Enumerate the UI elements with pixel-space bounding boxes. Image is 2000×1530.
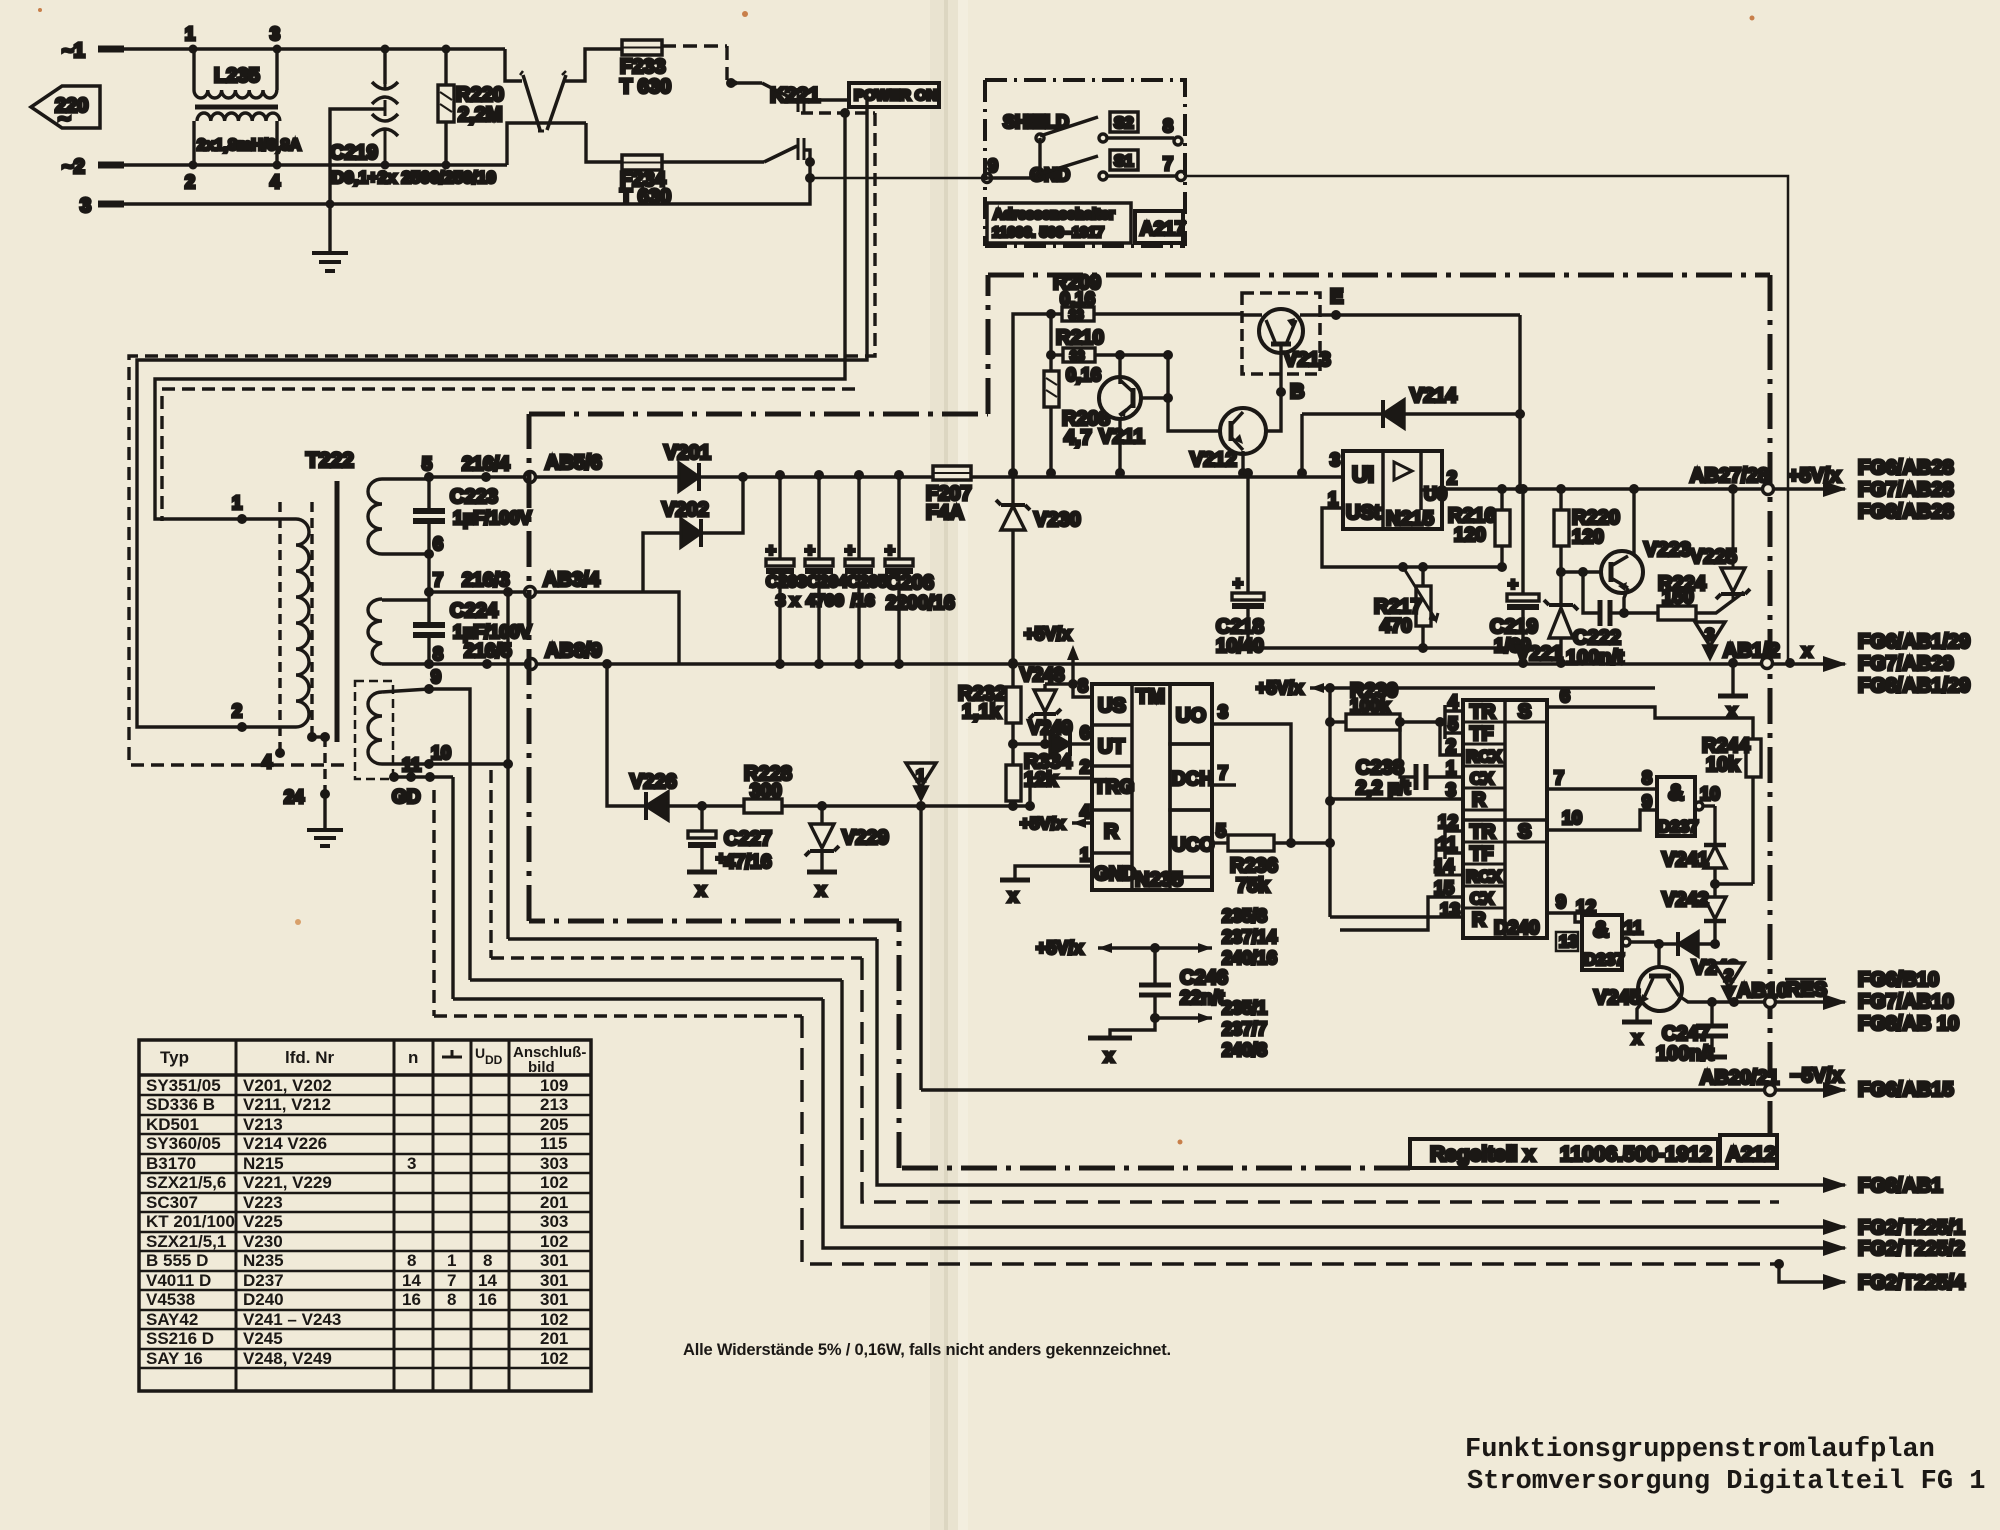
svg-text:4700: 4700 <box>806 591 844 610</box>
svg-text:V245: V245 <box>1594 987 1641 1009</box>
US pin 8 wire <box>1073 684 1092 697</box>
svg-text:3: 3 <box>270 24 280 44</box>
svg-text:9: 9 <box>1642 792 1652 812</box>
zener V221 <box>1516 567 1578 668</box>
svg-text:102: 102 <box>540 1349 568 1368</box>
svg-text:SC307: SC307 <box>146 1193 198 1212</box>
wire dashed loop <box>862 958 1779 1202</box>
svg-text:TF: TF <box>1470 844 1493 865</box>
svg-text:CX: CX <box>1470 769 1494 788</box>
svg-text:TR: TR <box>1470 822 1496 843</box>
svg-text:+5V/x: +5V/x <box>1024 624 1072 644</box>
svg-text:237/7: 237/7 <box>1222 1019 1267 1039</box>
svg-text:n: n <box>408 1048 418 1067</box>
svg-text:T222: T222 <box>306 449 354 472</box>
svg-text:V4011 D: V4011 D <box>146 1271 211 1290</box>
svg-text:10: 10 <box>431 743 451 763</box>
svg-text:2: 2 <box>1447 468 1457 488</box>
svg-text:/16: /16 <box>851 591 875 610</box>
svg-text:8: 8 <box>407 1251 416 1270</box>
svg-text:FG2/T225/4: FG2/T225/4 <box>1858 1272 1966 1294</box>
svg-text:470: 470 <box>1380 616 1412 637</box>
svg-text:FG6/AB28: FG6/AB28 <box>1858 457 1954 479</box>
diode V249 <box>1013 718 1092 756</box>
svg-text:R: R <box>1472 790 1486 811</box>
svg-text:11006.500-1912: 11006.500-1912 <box>1560 1143 1712 1166</box>
svg-text:+5V/x: +5V/x <box>1256 678 1304 698</box>
wire GND pin7 to right rail <box>1185 176 1788 663</box>
transistor V223 <box>1561 484 1691 613</box>
svg-text:V4538: V4538 <box>146 1290 195 1309</box>
R pin3 wire <box>1330 797 1463 800</box>
svg-text:1µF/100V: 1µF/100V <box>453 508 531 528</box>
svg-text:C247: C247 <box>1662 1023 1710 1045</box>
svg-text:E: E <box>1330 286 1343 308</box>
svg-text:~: ~ <box>58 106 71 131</box>
svg-text:102: 102 <box>540 1173 568 1192</box>
svg-text:V201: V201 <box>664 442 711 464</box>
svg-text:US: US <box>1098 695 1126 717</box>
svg-text:3: 3 <box>1705 625 1714 644</box>
svg-text:F233: F233 <box>620 56 666 78</box>
capacitor C218 <box>1216 468 1264 657</box>
svg-text:V226: V226 <box>630 771 677 793</box>
svg-text:235/1: 235/1 <box>1222 998 1267 1018</box>
svg-text:237/14: 237/14 <box>1222 927 1277 947</box>
switch S1 GND <box>983 138 1186 185</box>
svg-text:DCH: DCH <box>1172 769 1213 790</box>
svg-text:A212: A212 <box>1726 1143 1776 1166</box>
resistor R228 <box>744 763 921 813</box>
capacitor C219 (1/80) <box>1490 484 1539 657</box>
svg-text:C246: C246 <box>1180 967 1228 989</box>
svg-text:Funktionsgruppenstromlaufplan: Funktionsgruppenstromlaufplan <box>1465 1435 1935 1465</box>
wire twist symbol <box>505 49 622 165</box>
capacitor C247 <box>1656 1002 1728 1065</box>
svg-text:SAY42: SAY42 <box>146 1310 198 1329</box>
svg-text:DD: DD <box>485 1053 503 1067</box>
transistor V212 <box>1190 408 1266 478</box>
svg-text:2x1,8mH/0,8A: 2x1,8mH/0,8A <box>197 137 302 154</box>
svg-text:8: 8 <box>483 1251 492 1270</box>
svg-text:TM: TM <box>1136 686 1165 708</box>
svg-text:UI: UI <box>1352 462 1374 487</box>
resistor R210 <box>1046 327 1168 385</box>
wire top line <box>193 47 277 50</box>
wire pin10 to loop <box>429 764 508 939</box>
svg-text:U: U <box>475 1045 485 1061</box>
switch S2 SHIELD <box>1003 112 1182 145</box>
svg-text:33: 33 <box>1070 348 1084 363</box>
capacitor C222 <box>1566 572 1629 669</box>
svg-text:1: 1 <box>447 1251 456 1270</box>
svg-text:8: 8 <box>1078 676 1088 696</box>
svg-text:2200/16: 2200/16 <box>886 593 955 614</box>
wire signal 1 to TRG <box>921 778 1092 806</box>
svg-text:3: 3 <box>1330 450 1340 470</box>
svg-text:+5V/x: +5V/x <box>1036 938 1084 958</box>
svg-text:RCX: RCX <box>1466 747 1503 766</box>
svg-text:2: 2 <box>1446 736 1456 756</box>
svg-text:TRG: TRG <box>1094 777 1134 798</box>
+5V output labels <box>1690 457 1954 523</box>
svg-text:303: 303 <box>540 1212 568 1231</box>
svg-text:x: x <box>1802 641 1812 661</box>
wire K221 to T222 pin 1 <box>155 113 845 519</box>
resistor R239 <box>1330 680 1440 730</box>
ground x at AB1/2 <box>1718 640 1780 721</box>
wire V211/R210 to V212 base <box>1168 355 1220 431</box>
GND pin 1 wire + ground <box>1000 866 1092 906</box>
svg-text:AB10: AB10 <box>1737 980 1788 1002</box>
resistor R232 <box>958 658 1021 749</box>
svg-text:C219: C219 <box>330 142 378 164</box>
svg-text:201: 201 <box>540 1329 568 1348</box>
svg-text:7: 7 <box>433 570 443 590</box>
svg-text:D240: D240 <box>1494 918 1539 939</box>
svg-text:KD501: KD501 <box>146 1115 199 1134</box>
trigger bracket pins 4/5 <box>1445 705 1463 739</box>
capacitor C223 <box>413 477 531 592</box>
svg-text:6: 6 <box>1080 723 1090 743</box>
svg-text:D240: D240 <box>243 1290 284 1309</box>
svg-text:3: 3 <box>407 1154 416 1173</box>
svg-text:Regelteil x: Regelteil x <box>1430 1143 1535 1166</box>
wire loop horizontals <box>508 937 877 940</box>
wire loop v1 dashed <box>432 790 435 1016</box>
svg-text:7: 7 <box>447 1271 456 1290</box>
svg-text:F4A: F4A <box>926 502 964 524</box>
svg-text:T 630: T 630 <box>620 76 671 98</box>
resistor R334 <box>1006 744 1073 811</box>
svg-text:102: 102 <box>540 1232 568 1251</box>
svg-text:SY360/05: SY360/05 <box>146 1134 221 1153</box>
svg-text:RCX: RCX <box>1466 867 1503 886</box>
capacitor C246 <box>1153 948 1156 1018</box>
svg-text:Typ: Typ <box>160 1048 189 1067</box>
svg-text:B 555 D: B 555 D <box>146 1251 208 1270</box>
DCH pin7 stub <box>1212 783 1236 786</box>
trigger bracket pins 12/11 <box>1445 825 1463 859</box>
svg-text:−5V/x: −5V/x <box>1790 1065 1843 1087</box>
svg-text:V241: V241 <box>1662 849 1709 871</box>
svg-text:FG7/AB10: FG7/AB10 <box>1858 991 1954 1013</box>
electrolytic C204 <box>805 470 848 669</box>
svg-text:SZX21/5,1: SZX21/5,1 <box>146 1232 226 1251</box>
resistor R220 2,2M <box>438 49 504 165</box>
svg-text:FG2/T225/1: FG2/T225/1 <box>1858 1217 1965 1239</box>
svg-text:216/5: 216/5 <box>464 641 512 662</box>
wire dashed after F233 <box>662 46 727 80</box>
svg-text:11: 11 <box>1438 834 1457 854</box>
primary winding <box>237 514 247 524</box>
svg-text:2: 2 <box>185 172 195 192</box>
wire pin9 to loop <box>429 689 470 980</box>
svg-text:V242: V242 <box>1662 889 1709 911</box>
timer IC N235 <box>1078 676 1214 891</box>
svg-text:U0: U0 <box>1424 484 1447 504</box>
svg-text:lfd. Nr: lfd. Nr <box>285 1048 334 1067</box>
svg-text:1,1k: 1,1k <box>962 701 1002 723</box>
diode V214 <box>1297 385 1525 478</box>
svg-text:C222: C222 <box>1573 627 1621 649</box>
wire after F234 <box>662 160 764 163</box>
diode V242 <box>1662 884 1726 944</box>
svg-text:C203: C203 <box>766 572 807 591</box>
wire K221 to T222 pin 2 <box>137 100 867 727</box>
R pin13 wire <box>1330 915 1463 918</box>
svg-text:V214: V214 <box>1410 385 1458 407</box>
svg-text:120: 120 <box>1454 525 1486 546</box>
svg-text:R216: R216 <box>1448 505 1496 527</box>
resistor R216 <box>1448 484 1510 572</box>
svg-text:AB8/9: AB8/9 <box>545 640 602 662</box>
junction dots top area <box>189 45 451 209</box>
svg-text:C224: C224 <box>450 600 499 622</box>
svg-text:12: 12 <box>1576 897 1596 917</box>
svg-text:4: 4 <box>1448 692 1458 712</box>
220V arrow label <box>31 86 100 131</box>
svg-text:5: 5 <box>1216 821 1226 841</box>
svg-text:AB27/28: AB27/28 <box>1690 465 1769 487</box>
svg-text:16: 16 <box>402 1290 421 1309</box>
svg-text:24: 24 <box>284 787 304 807</box>
wire -5V line AB20/21 <box>921 1065 1954 1101</box>
screen to pin 24 and core ground <box>310 502 313 735</box>
svg-text:B: B <box>1290 381 1304 403</box>
UO pin3 wire <box>1212 724 1291 843</box>
svg-text:C218: C218 <box>1216 616 1264 638</box>
svg-text:301: 301 <box>540 1290 568 1309</box>
svg-text:+5V/x: +5V/x <box>1788 465 1841 487</box>
capacitor C238 <box>1356 717 1463 799</box>
svg-text:R210: R210 <box>1056 327 1104 349</box>
svg-text:301: 301 <box>540 1271 568 1290</box>
relay K221 contacts <box>726 78 875 183</box>
wire lower reg rail <box>1248 648 1523 663</box>
svg-text:109: 109 <box>540 1076 568 1095</box>
svg-text:201: 201 <box>540 1193 568 1212</box>
svg-text:6: 6 <box>433 534 443 554</box>
svg-text:1: 1 <box>1446 758 1456 778</box>
svg-text:~1: ~1 <box>62 40 85 62</box>
svg-text:V223: V223 <box>1644 539 1691 561</box>
svg-text:V221: V221 <box>1516 643 1563 665</box>
svg-text:~2: ~2 <box>62 156 85 178</box>
svg-text:Alle Widerstände 5% / 0,16W,: Alle Widerstände 5% / 0,16W, falls nicht… <box>683 1341 1171 1359</box>
svg-text:4: 4 <box>262 752 272 772</box>
svg-text:R236: R236 <box>1230 855 1278 877</box>
svg-text:1: 1 <box>1080 845 1090 865</box>
wire screen dashed inner <box>162 389 855 521</box>
wire dashed loop to FG2/T225/4 <box>802 1016 1779 1264</box>
svg-text:5: 5 <box>1448 714 1458 734</box>
svg-text:10k: 10k <box>1706 754 1740 776</box>
diode V241 <box>1662 806 1753 889</box>
svg-text:V221, V229: V221, V229 <box>243 1173 332 1192</box>
svg-text:16: 16 <box>478 1290 497 1309</box>
capacitor C227 <box>687 806 772 900</box>
svg-text:C223: C223 <box>450 486 498 508</box>
NAND gate D237 (1) <box>1642 768 1720 836</box>
wire loop to FG8/AB1 <box>877 939 1845 1185</box>
node E <box>1242 313 1520 316</box>
svg-text:D0,1+2x 2500/250/10: D0,1+2x 2500/250/10 <box>332 168 496 187</box>
svg-text:3: 3 <box>1446 780 1456 800</box>
svg-text:R: R <box>1472 910 1486 931</box>
svg-text:13: 13 <box>1559 932 1578 951</box>
wire raw supply riser <box>1013 314 1062 473</box>
S pin6 wire to R244 <box>1547 686 1753 739</box>
svg-text:R: R <box>1104 821 1119 843</box>
svg-text:100k: 100k <box>1350 696 1391 716</box>
wire -5V feed down <box>919 806 922 1090</box>
svg-text:x: x <box>816 880 826 900</box>
svg-text:S: S <box>1518 701 1531 723</box>
svg-text:11: 11 <box>1624 918 1643 938</box>
svg-text:C205: C205 <box>847 572 888 591</box>
svg-text:120: 120 <box>1572 527 1604 548</box>
NAND gate D237 (2) <box>1556 897 1660 970</box>
svg-text:22n/t: 22n/t <box>1180 988 1225 1009</box>
svg-text:2: 2 <box>232 701 242 721</box>
svg-text:FG7/AB28: FG7/AB28 <box>1858 479 1954 501</box>
wire RES line <box>1712 1000 1845 1003</box>
svg-text:FG2/T225/2: FG2/T225/2 <box>1858 1238 1965 1260</box>
svg-text:3: 3 <box>80 195 91 217</box>
secondary winding 7-8 <box>368 599 382 664</box>
D240 pin10 wire <box>1547 810 1657 830</box>
svg-text:0,16: 0,16 <box>1066 365 1101 385</box>
transistor V213 in dashed box <box>1242 293 1331 392</box>
fuse F233 <box>620 40 671 98</box>
electrolytic C203 <box>766 470 807 669</box>
secondary winding 5-6 <box>368 479 382 554</box>
svg-text:GND: GND <box>1094 864 1136 885</box>
svg-text:33: 33 <box>1069 307 1083 322</box>
paper specks <box>38 8 1755 1145</box>
rheostat R217 <box>1374 562 1438 653</box>
svg-text:TF: TF <box>1470 724 1493 745</box>
svg-text:S2: S2 <box>1114 115 1134 132</box>
svg-text:C206: C206 <box>886 572 934 594</box>
svg-text:216/3: 216/3 <box>462 570 510 591</box>
electrolytic C205 <box>845 470 888 669</box>
svg-text:+: + <box>766 541 776 560</box>
svg-text:C204: C204 <box>807 572 848 591</box>
svg-text:11006. 500–1917: 11006. 500–1917 <box>992 225 1104 241</box>
svg-text:213: 213 <box>540 1095 568 1114</box>
svg-text:GD: GD <box>392 787 421 808</box>
node ~1 input <box>62 40 193 62</box>
electrolytic C206 <box>885 470 955 669</box>
svg-text:150: 150 <box>1662 587 1694 608</box>
svg-text:FG6/AB1/29: FG6/AB1/29 <box>1858 631 1970 653</box>
svg-text:x: x <box>696 880 706 900</box>
wire loop v4 dashed <box>489 770 492 958</box>
svg-text:FG6/B10: FG6/B10 <box>1858 969 1939 991</box>
sheet marker triangle 3 <box>1695 622 1725 658</box>
zener V248 <box>1020 665 1064 749</box>
svg-text:R220: R220 <box>456 84 504 106</box>
node ~2 input <box>62 156 193 178</box>
svg-text:C227: C227 <box>724 828 772 850</box>
svg-text:V211, V212: V211, V212 <box>243 1095 331 1114</box>
svg-text:N235: N235 <box>243 1251 284 1270</box>
wire loop to FG2/T225/1 <box>842 980 1845 1227</box>
wire GD to loop <box>451 777 454 999</box>
svg-text:2,2 µ/t: 2,2 µ/t <box>1356 778 1411 799</box>
svg-text:5: 5 <box>422 454 432 474</box>
fuse F234 <box>620 155 671 208</box>
svg-text:4: 4 <box>270 172 280 192</box>
A217 label boxes <box>987 203 1185 243</box>
svg-text:FG8/AB28: FG8/AB28 <box>1858 501 1954 523</box>
svg-text:D237: D237 <box>1584 950 1625 969</box>
svg-text:2: 2 <box>1080 757 1090 777</box>
svg-text:1: 1 <box>185 24 195 44</box>
svg-text:12: 12 <box>1438 812 1458 832</box>
svg-text:303: 303 <box>540 1154 568 1173</box>
resistor R244 <box>1702 735 1761 884</box>
primary screen pin 4 <box>278 502 281 750</box>
svg-text:&: & <box>1593 917 1609 942</box>
svg-text:C238: C238 <box>1356 757 1404 779</box>
svg-text:FG7/AB29: FG7/AB29 <box>1858 653 1954 675</box>
svg-text:D237: D237 <box>1658 817 1699 836</box>
scan fold crease <box>930 0 958 1530</box>
svg-text:S: S <box>1518 821 1531 843</box>
svg-text:1: 1 <box>916 766 925 785</box>
svg-text:FG8/AB1: FG8/AB1 <box>1858 1175 1942 1197</box>
svg-text:2,2M: 2,2M <box>458 104 502 126</box>
svg-text:75k: 75k <box>1236 875 1270 897</box>
svg-text:240/8: 240/8 <box>1222 1040 1267 1060</box>
svg-text:15: 15 <box>1434 878 1454 898</box>
svg-text:V248, V249: V248, V249 <box>243 1349 332 1368</box>
wire rail AB3/4 <box>429 592 679 663</box>
resistor R220 (120) <box>1554 484 1620 572</box>
svg-text:&: & <box>1668 780 1684 805</box>
svg-text:+: + <box>1508 575 1518 594</box>
svg-text:216/4: 216/4 <box>462 454 510 475</box>
wire bottom line <box>193 163 507 166</box>
svg-text:3 x: 3 x <box>776 591 800 610</box>
svg-text:9: 9 <box>1556 892 1566 912</box>
wire USt feedback <box>1322 508 1502 567</box>
svg-text:V212: V212 <box>1190 449 1237 471</box>
svg-text:V248: V248 <box>1020 665 1064 686</box>
svg-text:FG8/AB 10: FG8/AB 10 <box>1858 1013 1959 1035</box>
svg-text:TR: TR <box>1470 702 1496 723</box>
capacitor C224 <box>413 592 531 664</box>
svg-text:+5V/x: +5V/x <box>1020 814 1065 833</box>
transistor V245 <box>1594 944 1712 1048</box>
wire line3 to K221 <box>330 178 810 204</box>
svg-text:10: 10 <box>1562 808 1582 828</box>
R pin 4 supply arrow <box>1020 814 1092 833</box>
svg-text:V213: V213 <box>243 1115 283 1134</box>
svg-text:235/8: 235/8 <box>1222 906 1267 926</box>
svg-text:SS216 D: SS216 D <box>146 1329 214 1348</box>
diode V243 <box>1654 932 1739 979</box>
svg-text:1: 1 <box>232 493 242 513</box>
svg-text:V230: V230 <box>1034 509 1081 531</box>
svg-text:3: 3 <box>1218 702 1228 722</box>
svg-text:100n/t: 100n/t <box>1656 1043 1714 1065</box>
svg-text:R220: R220 <box>1572 507 1620 529</box>
svg-text:SY351/05: SY351/05 <box>146 1076 221 1095</box>
